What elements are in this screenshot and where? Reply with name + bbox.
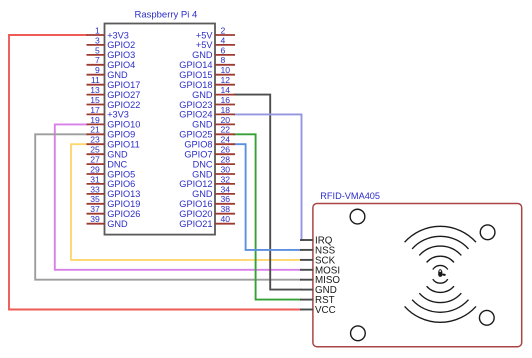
pin 38 (GPIO20) right <box>179 204 235 219</box>
svg-text:4: 4 <box>221 35 226 45</box>
pin 3 (GPIO2) left <box>87 35 136 50</box>
svg-text:7: 7 <box>95 55 100 65</box>
svg-text:+5V: +5V <box>196 40 213 50</box>
svg-text:17: 17 <box>90 105 100 115</box>
svg-text:GND: GND <box>107 150 128 160</box>
svg-text:GPIO19: GPIO19 <box>107 199 140 209</box>
svg-text:GPIO24: GPIO24 <box>179 110 212 120</box>
svg-text:16: 16 <box>221 95 231 105</box>
wire GPIO9 pin21 to RFID MISO <box>35 134 300 279</box>
svg-text:18: 18 <box>221 105 231 115</box>
pin 40 (GPIO21) right <box>179 214 235 229</box>
svg-text:32: 32 <box>221 174 231 184</box>
pin 4 (+5V) right <box>196 35 235 50</box>
svg-text:19: 19 <box>90 115 100 125</box>
svg-text:39: 39 <box>90 214 100 224</box>
pin 27 (DNC) left <box>87 155 128 170</box>
pin 11 (GPIO17) left <box>87 75 141 90</box>
svg-text:GPIO27: GPIO27 <box>107 90 140 100</box>
mounting hole bottom-right <box>479 310 494 325</box>
svg-text:GND: GND <box>192 50 213 60</box>
pin 10 (GPIO15) right <box>179 65 235 80</box>
pin 32 (GPIO12) right <box>179 174 235 189</box>
svg-text:GPIO20: GPIO20 <box>179 209 212 219</box>
pin NSS RFID <box>300 245 336 256</box>
svg-text:GND: GND <box>192 90 213 100</box>
svg-text:GPIO14: GPIO14 <box>179 60 212 70</box>
svg-text:27: 27 <box>90 155 100 165</box>
wire GND pin14 to RFID GND <box>235 95 301 290</box>
wire GPIO11 pin23 to RFID SCK <box>71 144 300 260</box>
pin 34 (GND) right <box>192 184 235 199</box>
pin MISO RFID <box>300 275 340 286</box>
svg-text:+5V: +5V <box>196 30 213 40</box>
svg-text:3: 3 <box>95 35 100 45</box>
svg-text:34: 34 <box>221 184 231 194</box>
pin IRQ RFID <box>300 236 333 247</box>
svg-text:5: 5 <box>95 45 100 55</box>
svg-text:GND: GND <box>107 70 128 80</box>
pin 22 (GPIO25) right <box>179 125 235 140</box>
pin 8 (GPIO14) right <box>179 55 235 70</box>
svg-text:DNC: DNC <box>193 159 213 169</box>
pin 14 (GND) right <box>192 85 235 100</box>
svg-text:GPIO4: GPIO4 <box>107 60 135 70</box>
svg-text:8: 8 <box>221 55 226 65</box>
pin 12 (GPIO18) right <box>179 75 235 90</box>
pin 16 (GPIO23) right <box>179 95 235 110</box>
svg-text:GPIO13: GPIO13 <box>107 189 140 199</box>
svg-text:GPIO7: GPIO7 <box>184 150 212 160</box>
svg-text:30: 30 <box>221 164 231 174</box>
pin 33 (GPIO13) left <box>87 184 141 199</box>
wire 3V3 pin1 to RFID VCC <box>9 35 300 310</box>
pin 23 (GPIO11) left <box>87 135 140 150</box>
pin MOSI RFID <box>300 265 340 276</box>
svg-text:GPIO18: GPIO18 <box>179 80 212 90</box>
pin 19 (GPIO10) left <box>87 115 141 130</box>
pin 21 (GPIO9) left <box>87 125 136 140</box>
svg-text:GPIO10: GPIO10 <box>107 120 140 130</box>
module U2 RFID-VMA405 body <box>313 204 522 347</box>
pin 39 (GND) left <box>87 214 128 229</box>
pin 2 (+5V) right <box>196 25 235 40</box>
pin SCK RFID <box>300 255 336 266</box>
pin RST RFID <box>300 295 335 306</box>
svg-text:37: 37 <box>90 204 100 214</box>
pin 9 (GND) left <box>87 65 128 80</box>
svg-text:10: 10 <box>221 65 231 75</box>
mounting hole top-left <box>350 209 365 224</box>
pin 35 (GPIO19) left <box>87 194 141 209</box>
svg-text:GPIO15: GPIO15 <box>179 70 212 80</box>
svg-text:GPIO8: GPIO8 <box>184 140 212 150</box>
pin 13 (GPIO27) left <box>87 85 141 100</box>
svg-text:15: 15 <box>90 95 100 105</box>
pin 7 (GPIO4) left <box>87 55 136 70</box>
pin 1 (+3V3) left <box>87 25 129 40</box>
svg-text:GPIO5: GPIO5 <box>107 169 135 179</box>
pin 26 (GPIO7) right <box>184 145 235 160</box>
svg-text:11: 11 <box>91 75 100 85</box>
svg-text:GND: GND <box>192 189 213 199</box>
svg-text:VCC: VCC <box>315 305 336 316</box>
IC U1 Raspberry Pi 4 body <box>105 24 216 235</box>
svg-text:GND: GND <box>192 120 213 130</box>
svg-text:GPIO17: GPIO17 <box>107 80 140 90</box>
svg-text:33: 33 <box>90 184 100 194</box>
svg-text:RFID-VMA405: RFID-VMA405 <box>320 191 380 201</box>
svg-text:+3V3: +3V3 <box>107 110 129 120</box>
svg-text:GPIO3: GPIO3 <box>107 50 135 60</box>
svg-text:GPIO11: GPIO11 <box>107 140 140 150</box>
svg-text:6: 6 <box>221 45 226 55</box>
pin 24 (GPIO8) right <box>184 135 235 150</box>
pin VCC RFID <box>300 305 336 316</box>
svg-text:+3V3: +3V3 <box>107 30 129 40</box>
wire GPIO10 pin19 to RFID MOSI <box>55 124 300 269</box>
svg-text:13: 13 <box>90 85 100 95</box>
pin 17 (+3V3) left <box>87 105 129 120</box>
antenna arcs top <box>433 265 448 269</box>
svg-text:2: 2 <box>221 25 226 35</box>
pin 25 (GND) left <box>87 145 128 160</box>
pin 20 (GND) right <box>192 115 235 130</box>
svg-text:14: 14 <box>221 85 231 95</box>
svg-text:23: 23 <box>90 135 100 145</box>
svg-text:26: 26 <box>221 145 231 155</box>
svg-text:29: 29 <box>90 164 100 174</box>
mounting hole bottom-left <box>351 326 366 341</box>
svg-text:GND: GND <box>107 219 128 229</box>
svg-text:GPIO9: GPIO9 <box>107 130 135 140</box>
pin 37 (GPIO26) left <box>87 204 141 219</box>
svg-text:20: 20 <box>221 115 231 125</box>
svg-text:GPIO22: GPIO22 <box>107 100 140 110</box>
pin 5 (GPIO3) left <box>87 45 136 60</box>
pin 36 (GPIO16) right <box>179 194 235 209</box>
wire GPIO8 pin24 to RFID NSS <box>235 144 301 250</box>
svg-text:GPIO25: GPIO25 <box>179 130 212 140</box>
pin 29 (GPIO5) left <box>87 164 136 179</box>
svg-text:25: 25 <box>90 145 100 155</box>
svg-text:GPIO26: GPIO26 <box>107 209 140 219</box>
svg-text:GND: GND <box>192 169 213 179</box>
svg-text:GPIO16: GPIO16 <box>179 199 212 209</box>
wire GPIO24 pin18 to RFID IRQ <box>235 114 305 240</box>
pin 18 (GPIO24) right <box>179 105 235 120</box>
pin GND RFID <box>300 285 337 296</box>
svg-text:36: 36 <box>221 194 231 204</box>
svg-text:35: 35 <box>90 194 100 204</box>
svg-text:GPIO23: GPIO23 <box>179 100 212 110</box>
svg-text:12: 12 <box>221 75 231 85</box>
svg-text:GPIO21: GPIO21 <box>179 219 212 229</box>
mounting hole top-right <box>480 225 495 240</box>
antenna center key icon <box>438 269 446 277</box>
svg-text:GPIO12: GPIO12 <box>179 179 212 189</box>
pin 6 (GND) right <box>192 45 235 60</box>
pin 31 (GPIO6) left <box>87 174 136 189</box>
svg-text:31: 31 <box>90 174 100 184</box>
svg-text:GPIO2: GPIO2 <box>107 40 135 50</box>
svg-text:28: 28 <box>221 155 231 165</box>
svg-text:21: 21 <box>90 125 100 135</box>
svg-text:DNC: DNC <box>107 159 127 169</box>
wire GPIO25 pin22 to RFID RST <box>235 134 301 299</box>
pin 28 (DNC) right <box>193 155 235 170</box>
svg-text:9: 9 <box>95 65 100 75</box>
antenna arcs bottom <box>433 279 448 283</box>
svg-text:40: 40 <box>221 214 231 224</box>
svg-text:38: 38 <box>221 204 231 214</box>
svg-text:22: 22 <box>221 125 231 135</box>
svg-text:24: 24 <box>221 135 231 145</box>
svg-text:GPIO6: GPIO6 <box>107 179 135 189</box>
pin 15 (GPIO22) left <box>87 95 141 110</box>
svg-text:1: 1 <box>95 25 100 35</box>
svg-text:Raspberry Pi 4: Raspberry Pi 4 <box>134 10 197 21</box>
pin 30 (GND) right <box>192 164 235 179</box>
